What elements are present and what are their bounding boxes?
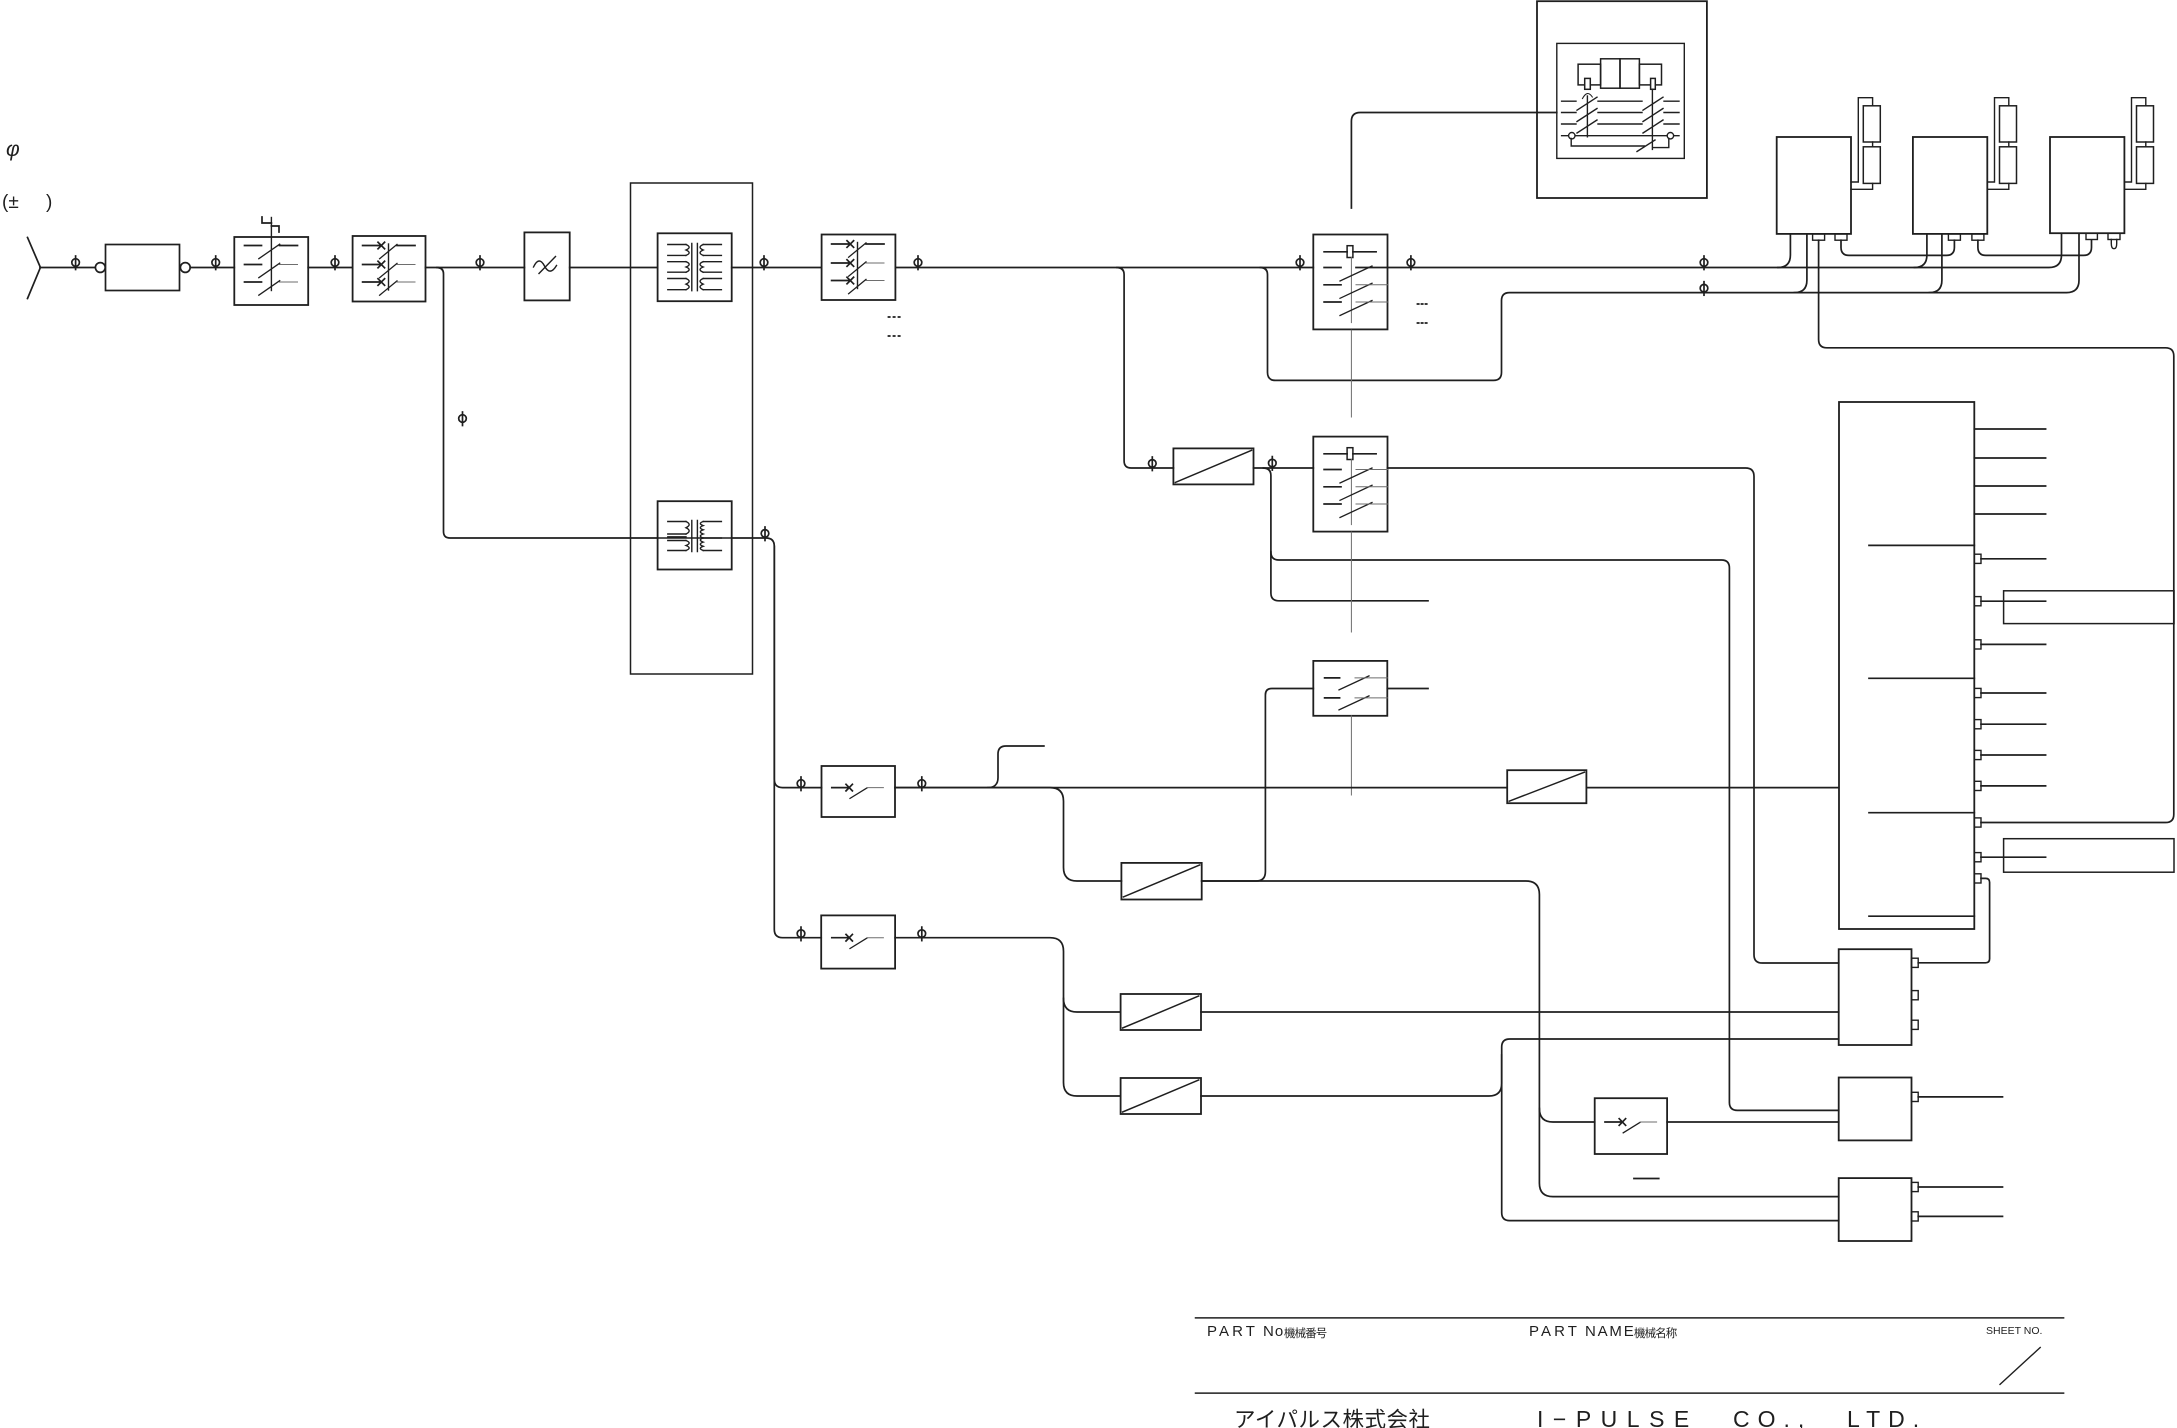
continuation dots group 1 [889,317,900,336]
wire INV1 drop to LV feeder [1794,234,1807,292]
Q2 pole vertical [388,244,390,290]
PSU1 pin 2 [1912,991,1919,1000]
svg-text:機械名称: 機械名称 [1634,1326,1678,1340]
CT phi on wire [72,256,80,270]
svg-text:φ: φ [6,138,20,161]
T2 left winding [668,522,686,551]
wire CONV5 to PLC [1586,787,1838,789]
PLC pin 2 [1974,597,1981,606]
wire INV2 drop to LV feeder [1929,234,1942,292]
power supply PSU1 [1839,949,1912,1045]
PLC pin 5 [1974,720,1981,729]
wire feeder1 to CONV5 [895,787,1507,789]
K2 contact row 2 [1562,109,1679,122]
Q2 row 2 [363,261,385,268]
T2 core bars [692,521,698,552]
fuse-switch F2 [1313,437,1387,532]
CT phi feeder2 left [797,927,805,941]
wire branch down from CONV1 output [1263,468,1838,1110]
svg-text:): ) [46,192,52,213]
CT phi on wire [1269,457,1277,471]
K2 bottom row line [1562,135,1679,137]
inverter INV2 [1913,137,1987,234]
PSU3 pin 1 [1912,1182,1919,1191]
INV2 brake resistor R2b [2000,147,2017,184]
svg-text:LTD.: LTD. [1847,1406,1927,1428]
inverter INV3 [2050,137,2124,233]
Q1 row 1 [245,245,298,247]
transformer cubicle outline [631,183,753,674]
S1 contact symbol [832,784,853,791]
Q3 row 1 [832,241,854,248]
circuit breaker Q3 [822,235,896,301]
wire INV1 pinB to INV2 pin [1841,240,1954,255]
wire S1 output down to CONV2 [895,788,1121,881]
wire INV1 pinA loop via right side to PLC [1819,240,2174,822]
power supply PSU2 [1839,1078,1912,1141]
MV bus extension to inverter INV1..3 [1388,234,2062,268]
CT phi right of F1 [1407,256,1415,270]
K2 coil block right [1639,64,1661,85]
converter CONV1 [1173,448,1253,484]
wire Z-jog from bus to LV feeder line [1260,234,2079,381]
PSU1 pin 1 [1912,958,1919,967]
circuit breaker Q2 [353,236,426,302]
contactor S2 [821,915,895,968]
inverter INV1 [1777,137,1851,234]
svg-text:機械番号: 機械番号 [1284,1326,1327,1340]
power supply PSU3 [1839,1178,1912,1241]
INV2 pin A [1948,234,1960,240]
CT phi on wire [761,527,769,541]
INV3 pin B [2108,233,2120,239]
S0 row 1 [1325,677,1340,679]
K2 coil block left [1578,64,1601,85]
Q2 row 1 [363,242,385,249]
F1 row 2 [1324,284,1341,286]
wire PLC pin10 to PSU1 pin1 [1918,878,1989,962]
wire INV2 pinB to INV3 pin [1978,240,2092,255]
svg-text:NAME: NAME [1585,1323,1636,1340]
title block top rule [1196,1317,2064,1319]
Q1 pole vertical [270,218,272,291]
converter CONV3 [1121,994,1201,1030]
CT phi feeder2 right [918,927,926,941]
CT phi on bus extension [1700,256,1708,270]
svg-text:I−PULSE: I−PULSE [1537,1406,1699,1428]
svg-text:SHEET NO.: SHEET NO. [1986,1325,2042,1337]
wire [308,267,352,269]
wire CONV1 to F2 [1254,467,1314,469]
F1 fuse element [1347,246,1353,258]
S0 row 2 [1325,697,1340,699]
F2 fuse row [1324,453,1376,455]
T1 right winding [703,245,721,290]
INV2 brake resistor loop [1987,98,2009,190]
T1 left winding [668,245,686,290]
CT phi on wire [476,256,484,270]
PLC stub lines top [1974,429,2045,514]
PLC divider 1 [1869,544,1974,546]
PLC pin 3 [1974,640,1981,649]
INV1 brake resistor R1a [1863,106,1880,142]
PSU1 pin 3 [1912,1020,1919,1029]
K2 terminal left [1585,78,1591,89]
wire CONV4 output [1201,1055,1502,1096]
contactor S1 [822,766,896,817]
INV1 brake resistor loop [1851,98,1873,190]
F1 row 1 [1324,267,1341,269]
K2 terminal circle right [1667,133,1673,139]
CT phi on wire [914,256,922,270]
frequency converter U1 [524,232,569,300]
K2 left actuator stem with arrow [1586,96,1588,137]
F1 fuse row [1324,251,1376,253]
svg-text:CO.,: CO., [1733,1406,1812,1428]
PLC pin 9 [1974,853,1981,862]
PLC divider 4 [1869,915,1974,917]
wire feeder 2 drop [774,546,821,937]
wire [426,267,525,269]
K2 lower interlock path [1571,138,1644,146]
disconnector Q1 with earthing switch [234,237,308,305]
CT phi feeder1 left [797,777,805,791]
wire F1 to F2 link [1350,330,1352,417]
PLC pin 8 (loop to inverters) [1974,818,1981,827]
K2 coil block center [1601,59,1620,88]
dash below S3 [1634,1178,1659,1180]
sheet number slash [2000,1348,2040,1385]
CT phi on wire [1149,457,1157,471]
wire S0 output stub [1387,688,1428,690]
wire PSU3 pin2 stub [1918,1215,2002,1217]
F2 fuse element [1347,448,1353,460]
wire branch to PSU3 upper [1539,1109,1838,1197]
CT phi on wire [760,256,768,270]
F1 row 3 [1324,301,1341,303]
K2 right actuator stem [1651,89,1653,149]
wire T2 output to feeders [732,538,822,788]
INV1 brake resistor R1b [1863,147,1880,184]
wire PSU2 pin stub [1918,1096,2002,1098]
contactor detail enclosure K2 outer [1537,1,1707,198]
svg-text:アイパルス株式会社: アイパルス株式会社 [1234,1408,1431,1428]
Q2 row 3 [363,279,385,286]
load-break switch S0 [1313,661,1387,716]
CT phi beside vertical wire [459,412,467,426]
wire [190,267,234,269]
F2 pole vertical [1350,460,1352,525]
converter CONV4 [1121,1078,1201,1114]
PLC pin 7 [1974,781,1981,790]
U1 sine symbol [534,261,557,271]
wire S3 to PSU2 [1667,1121,1839,1123]
T2 through wire [658,537,732,539]
wire S1 output with stub [988,746,1044,788]
K2 contact row 3 [1562,120,1679,133]
CT phi on wire [331,256,339,270]
svg-text:No: No [1263,1323,1284,1340]
PLC divider 3 [1869,812,1974,814]
INV2 brake resistor R2a [2000,106,2017,142]
INV3 pin A [2086,233,2097,239]
T1 core bars [692,244,698,291]
INV1 pin A [1813,234,1825,240]
INV2 pin B [1972,234,1984,240]
wire drop to CONV4 [1064,999,1121,1097]
T2 right winding [703,522,721,551]
S2 contact symbol [832,934,853,941]
INV3 pinB plug stub [2111,240,2116,249]
F2 row 2 [1324,486,1341,488]
Q1 row 3 [245,281,262,283]
Q3 row 3 [832,277,854,284]
wire F1 to contactor detail [1351,113,1556,209]
wire T1 output [732,267,822,269]
wire bracket to PSU1 and PSU3 [1502,1039,1839,1221]
transformer T2 [658,501,732,569]
PLC divider 2 [1869,677,1974,679]
continuation dots group 2 [1418,304,1427,323]
CT phi on LV feeder line [1700,282,1708,296]
PLC pin 10 [1974,874,1981,883]
wire stub branch at x1271 [1271,552,1428,601]
wire INV1 drop to bus [1778,234,1791,267]
Q1 row 2 [245,264,262,266]
PSU3 pin 2 [1912,1212,1919,1221]
svg-text:PART: PART [1207,1323,1258,1340]
converter CONV2 [1121,863,1201,900]
INV1 pin B [1835,234,1847,240]
coupling circle right [180,263,190,273]
INV3 brake resistor loop [2124,98,2145,190]
wire [570,267,658,269]
transformer T1 [658,233,732,301]
wire PSU3 pin1 stub [1918,1186,2002,1188]
PLC cabinet main box [1839,402,1974,929]
K2 contact row 1 [1562,97,1679,110]
wire F2 output to PSU1 [1388,468,1839,963]
gearbox box M1 [106,245,180,291]
wire CONV2 onward to S3 [1202,881,1595,1122]
PLC option module rect upper [2004,591,2174,624]
converter CONV5 [1507,770,1586,803]
F1 pole vertical [1350,258,1352,323]
wire S2 output down to CONV3 [895,938,1121,1012]
wire [40,267,95,269]
generator G1 (wind source Y symbol) [28,238,41,299]
CT phi on wire [212,256,220,270]
wire branch down to auxiliary transformer [437,268,658,539]
fuse-switch F1 [1313,235,1387,330]
S3 contact symbol [1605,1119,1626,1126]
F2 row 1 [1324,469,1341,471]
coupling circle left [95,263,105,273]
CT phi left of F1 [1296,256,1304,270]
INV3 brake resistor R3b [2137,147,2154,184]
PSU2 pin 1 [1912,1092,1919,1101]
PLC option module rect lower [2004,839,2174,873]
K2 terminal right [1651,78,1656,89]
K2 terminal circle left [1569,133,1575,139]
svg-text:(±: (± [2,192,19,213]
PLC pin 6 [1974,750,1981,759]
PLC pin 4 [1974,688,1981,697]
title block bottom rule [1196,1392,2064,1394]
CT phi feeder1 right [918,777,926,791]
main MV bus wire [895,267,1313,269]
PLC pin 1 [1974,554,1981,563]
wire INV2 drop to bus [1914,234,1927,267]
wire branch down to converter CONV1 [1117,268,1173,469]
wire F2 to S0 link [1350,532,1352,632]
wire CONV3 to PSU1 [1201,1011,1839,1013]
Q3 row 2 [832,260,854,267]
wire below S0 [1350,716,1352,795]
wire CONV2 up to S0 [1202,689,1314,882]
Q3 pole vertical [857,243,859,289]
svg-text:PART: PART [1529,1323,1580,1340]
INV3 brake resistor R3a [2137,106,2154,142]
Q1 earthing arm [262,217,279,232]
K2 inner panel [1557,43,1685,158]
contactor S3 [1595,1098,1667,1154]
F2 row 3 [1324,503,1341,505]
